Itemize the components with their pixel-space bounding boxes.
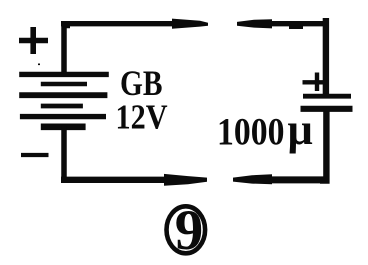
- svg-text:9: 9: [175, 199, 204, 262]
- wire: capacitor C down to bottom-right corner: [320, 108, 326, 181]
- wire: top side, left segment: [61, 21, 180, 26]
- wire: battery - terminal down to bottom-left corner: [61, 126, 67, 183]
- current arrow on top wire (pointing right): [172, 19, 208, 29]
- current arrow on bottom wire (pointing right): [164, 174, 207, 186]
- battery GB (plates): [19, 74, 109, 126]
- wire: bottom side, right segment: [268, 176, 329, 183]
- current arrow on top wire (pointing left): [237, 19, 272, 28]
- svg-text:12V: 12V: [116, 98, 168, 137]
- wire: top side, right segment: [268, 21, 329, 26]
- wire: battery + terminal up to top-left corner: [64, 26, 70, 77]
- wire: bottom side, left segment: [61, 177, 172, 183]
- figure number circle: [167, 206, 206, 253]
- capacitor C (electrolytic) plates: [301, 96, 353, 109]
- ink roughness under top-right wire: [289, 26, 303, 29]
- capacitor positive polarity mark +: [303, 73, 328, 92]
- battery negative polarity mark -: [21, 153, 49, 157]
- battery positive polarity mark +: [19, 27, 48, 54]
- svg-text:μ: μ: [288, 104, 313, 154]
- ink speck below + mark: [38, 63, 40, 65]
- current arrow on bottom wire (pointing left): [233, 174, 272, 184]
- wire: top-right corner down to capacitor C: [326, 21, 329, 96]
- svg-text:1000: 1000: [217, 111, 285, 154]
